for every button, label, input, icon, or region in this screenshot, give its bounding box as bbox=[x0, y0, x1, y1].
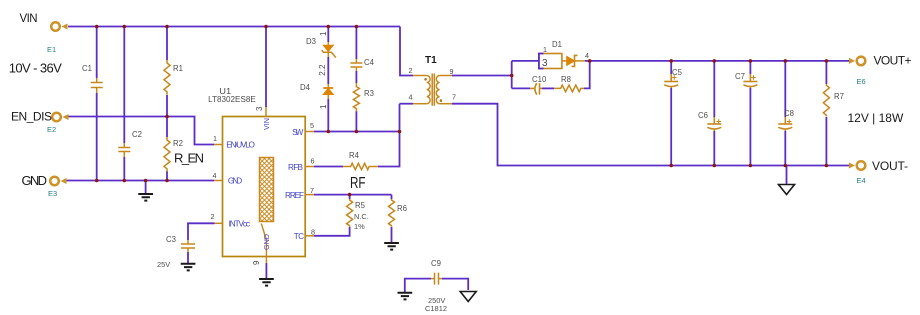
svg-text:2: 2 bbox=[211, 212, 215, 221]
svg-text:C5: C5 bbox=[672, 68, 683, 77]
svg-text:C6: C6 bbox=[698, 111, 708, 120]
svg-text:VOUT+: VOUT+ bbox=[874, 54, 912, 68]
svg-text:E4: E4 bbox=[857, 176, 866, 185]
svg-text:12V | 18W: 12V | 18W bbox=[848, 111, 904, 125]
svg-text:4: 4 bbox=[409, 93, 413, 102]
svg-text:3: 3 bbox=[542, 58, 548, 69]
svg-text:C1: C1 bbox=[82, 64, 92, 73]
svg-text:1%: 1% bbox=[354, 222, 365, 231]
svg-text:R7: R7 bbox=[834, 92, 844, 101]
svg-text:VIN: VIN bbox=[262, 118, 271, 130]
svg-text:EN_DIS: EN_DIS bbox=[11, 110, 52, 124]
svg-text:R3: R3 bbox=[364, 89, 374, 98]
svg-text:E2: E2 bbox=[47, 125, 56, 134]
svg-text:RFB: RFB bbox=[288, 163, 304, 172]
svg-text:C9: C9 bbox=[431, 259, 441, 268]
svg-text:TC: TC bbox=[294, 232, 304, 241]
svg-text:R5: R5 bbox=[355, 201, 366, 210]
svg-text:3: 3 bbox=[255, 106, 264, 111]
svg-text:R1: R1 bbox=[173, 64, 183, 73]
svg-text:R6: R6 bbox=[397, 204, 407, 213]
svg-text:E1: E1 bbox=[47, 45, 56, 54]
svg-text:2: 2 bbox=[409, 66, 413, 75]
svg-text:1: 1 bbox=[213, 134, 217, 143]
svg-text:8: 8 bbox=[311, 228, 315, 237]
svg-text:1: 1 bbox=[319, 104, 328, 109]
svg-text:1: 1 bbox=[543, 45, 547, 54]
svg-text:R_EN: R_EN bbox=[174, 151, 204, 166]
svg-text:EN/UVLO: EN/UVLO bbox=[226, 141, 255, 150]
svg-text:2.2: 2.2 bbox=[318, 64, 327, 76]
svg-text:25V: 25V bbox=[157, 260, 170, 269]
svg-text:C7: C7 bbox=[735, 72, 745, 81]
svg-text:T1: T1 bbox=[425, 55, 437, 66]
svg-text:4: 4 bbox=[213, 171, 217, 180]
svg-text:C3: C3 bbox=[166, 235, 176, 244]
svg-text:C8: C8 bbox=[784, 109, 794, 118]
svg-text:7: 7 bbox=[310, 186, 314, 195]
svg-text:GND: GND bbox=[262, 234, 271, 250]
svg-text:LT8302ES8E: LT8302ES8E bbox=[208, 95, 256, 104]
svg-text:VOUT-: VOUT- bbox=[872, 159, 908, 173]
svg-text:C10: C10 bbox=[532, 75, 547, 84]
svg-text:6: 6 bbox=[311, 157, 315, 166]
svg-text:GND: GND bbox=[228, 177, 242, 186]
svg-text:R4: R4 bbox=[349, 151, 360, 160]
svg-text:RREF: RREF bbox=[285, 191, 304, 200]
svg-text:4: 4 bbox=[585, 51, 589, 60]
svg-text:E6: E6 bbox=[857, 77, 866, 86]
svg-text:7: 7 bbox=[452, 93, 456, 102]
svg-text:SW: SW bbox=[292, 128, 304, 137]
svg-text:D1: D1 bbox=[552, 40, 562, 49]
svg-text:9: 9 bbox=[252, 260, 261, 265]
svg-text:R2: R2 bbox=[173, 139, 183, 148]
svg-text:C4: C4 bbox=[364, 58, 375, 67]
svg-text:1: 1 bbox=[319, 31, 328, 36]
svg-text:9: 9 bbox=[450, 67, 454, 76]
svg-text:VIN: VIN bbox=[20, 13, 38, 25]
svg-text:D4: D4 bbox=[300, 83, 311, 92]
svg-text:D3: D3 bbox=[306, 37, 316, 46]
svg-text:N.C.: N.C. bbox=[354, 212, 369, 221]
svg-text:C2: C2 bbox=[132, 130, 142, 139]
svg-text:GND: GND bbox=[22, 173, 48, 188]
svg-text:RF: RF bbox=[350, 175, 366, 192]
svg-text:C1812: C1812 bbox=[425, 304, 447, 313]
svg-text:R8: R8 bbox=[561, 75, 571, 84]
svg-text:10V - 36V: 10V - 36V bbox=[9, 60, 62, 75]
svg-text:INTVcc: INTVcc bbox=[229, 220, 250, 229]
svg-text:5: 5 bbox=[310, 121, 314, 130]
svg-text:E3: E3 bbox=[48, 189, 57, 198]
